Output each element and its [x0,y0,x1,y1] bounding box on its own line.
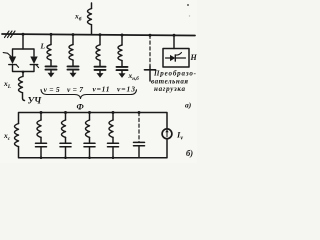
label nu=13 [117,85,135,94]
label x_н,б [128,71,140,82]
node dashed-branch junction [149,34,152,37]
inductor x_б feed coil [88,3,92,35]
svg-text:ν=5: ν=5 [44,85,60,94]
tank branch 2 [60,111,71,159]
svg-text:ν=11: ν=11 [93,85,110,94]
svg-text:ν=13: ν=13 [117,85,135,94]
label a) [185,101,192,110]
svg-text:б): б) [186,148,193,158]
svg-text:Преобразо-: Преобразо- [153,70,197,78]
label nu=7 [67,85,83,94]
label L [40,42,46,51]
svg-text:Ф: Ф [77,102,85,112]
tank branch 5 dashed capacitor [134,111,145,158]
tank branch 3 [84,111,95,159]
label Н [190,53,198,62]
wire box to coil xL [22,72,24,77]
varactor pair box [13,49,35,72]
brace Ф group [41,90,137,99]
label x_б [74,12,82,23]
filter branch 1 (nu=5) [46,33,57,78]
label УЧ [28,97,43,107]
svg-text:УЧ: УЧ [28,97,43,107]
label b) [186,148,193,158]
label nu=11 [93,85,110,94]
label x_c [3,131,11,142]
filter branch 3 (nu=11) [95,33,106,77]
node H-branch junction [173,34,176,37]
wire top bus [2,34,195,36]
tank circuit rectangle (b) [19,113,168,158]
load box H with diode [163,49,189,68]
svg-text:нагрузка: нагрузка [154,85,186,93]
varactor D1 (left) [9,57,19,68]
label Ф [77,102,85,112]
svg-text:Н: Н [190,53,198,62]
tank branch 1 [36,111,47,159]
label x_L [3,79,12,90]
label I_ν [176,130,183,142]
wire bus to varactor box [22,34,24,49]
label nu=5 [44,85,60,94]
inductor xL [19,77,25,101]
svg-text:а): а) [185,101,192,110]
svg-text:L: L [40,42,46,51]
paper speck [187,4,190,17]
svg-text:ν=7: ν=7 [67,85,83,94]
node box bottom [22,71,25,74]
arrow lead into D1 [3,53,13,59]
node bus-box junction [22,33,25,36]
ground chassis hatch [5,31,16,38]
tank branch 4 [108,111,119,159]
filter branch 4 (nu=13) [117,34,128,78]
current source I_ν [162,129,172,139]
filter branch 2 (nu=7) [68,33,79,77]
inductor x_c (left side) [15,124,19,147]
label preobrazovatelnaya nagruzka [151,70,197,94]
varactor D2 (right) [30,57,38,68]
capacitor x_н,б (dashed branch) [145,35,156,81]
wire bus to load box [173,35,175,48]
